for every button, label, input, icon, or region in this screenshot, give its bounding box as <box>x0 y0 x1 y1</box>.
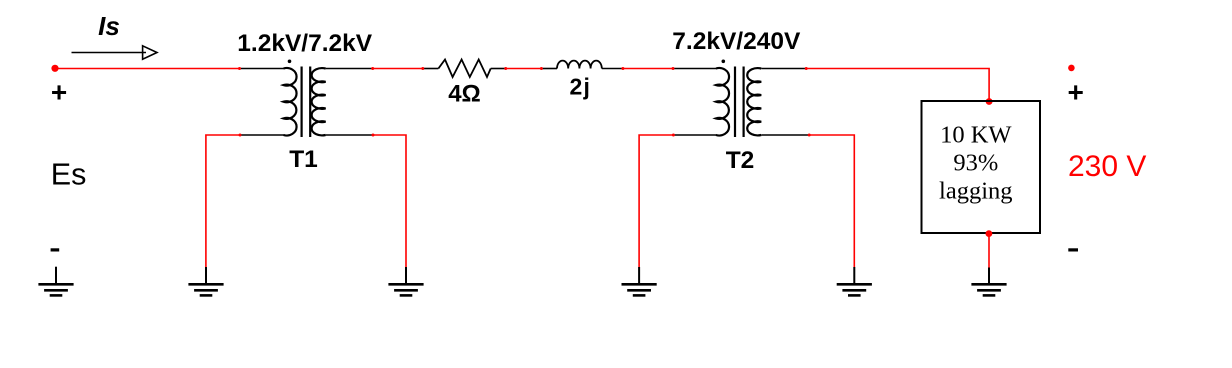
wire: red T1 primary bottom to ground corner <box>206 135 240 268</box>
ground G3 (T1 secondary) <box>388 267 423 295</box>
resistor R 4ohm zigzag <box>438 60 490 78</box>
transformer T1 polarity dot <box>288 60 292 64</box>
wire: black stub from T2 secondary top <box>761 68 806 70</box>
wire: black stub out of inductor <box>602 68 623 70</box>
wire: black stub into T2 primary top <box>673 68 717 70</box>
wire: black stub into inductor <box>541 68 557 70</box>
transformer T2 core <box>735 67 744 138</box>
transformer T2 polarity dot <box>722 60 726 64</box>
load box outline <box>922 101 1041 233</box>
wire: red inductor to T2 <box>623 68 673 70</box>
svg-text:7.2kV/240V: 7.2kV/240V <box>672 28 801 55</box>
transformer T2 secondary winding <box>747 68 761 135</box>
wire: source to T1 primary (red) <box>55 68 240 70</box>
wire: red load bottom to ground <box>988 234 990 268</box>
wire: red T1 secondary bottom to ground corner <box>373 135 406 268</box>
inductor L 2j <box>557 61 602 69</box>
svg-text:4Ω: 4Ω <box>448 80 481 107</box>
svg-text:T2: T2 <box>726 147 755 174</box>
ground G4 (T2 primary) <box>622 267 657 295</box>
svg-text:2j: 2j <box>570 73 592 99</box>
minus sign at source <box>51 248 60 251</box>
svg-text:lagging: lagging <box>939 178 1013 205</box>
transformer T1 primary winding <box>284 68 297 136</box>
svg-text:1.2kV/7.2kV: 1.2kV/7.2kV <box>237 30 373 57</box>
ground G2 (T1 primary) <box>188 267 223 295</box>
minus sign at output <box>1068 248 1078 251</box>
wire: red T2 secondary bottom to ground corner <box>809 135 854 268</box>
node: load top terminal dot <box>986 98 993 105</box>
ground G5 (T2 secondary) <box>837 267 872 295</box>
wire: black stub into T1 primary top <box>240 68 285 70</box>
node: output positive dot <box>1068 65 1075 72</box>
node: source positive terminal dot <box>51 65 58 72</box>
wire: black stub into resistor <box>423 68 439 70</box>
svg-text:+: + <box>51 76 67 107</box>
transformer T2 primary winding <box>716 68 729 135</box>
svg-text:Is: Is <box>98 11 120 41</box>
wire: red resistor to inductor <box>506 68 542 70</box>
transformer T1 core <box>302 67 311 138</box>
wire: red T1 to resistor <box>373 68 423 70</box>
wire: black stub from T2 primary bottom <box>673 134 717 136</box>
svg-text:10 KW: 10 KW <box>940 122 1012 149</box>
transformer T1 secondary winding <box>312 68 326 135</box>
svg-text:93%: 93% <box>953 150 998 177</box>
wire: black stub from T2 secondary bottom <box>761 134 809 136</box>
wire: black stub from T1 secondary bottom <box>326 134 373 136</box>
wire: red T2 secondary to load (with corner down) <box>806 69 989 102</box>
svg-text:T1: T1 <box>289 146 318 173</box>
svg-text:+: + <box>1068 76 1084 107</box>
red pin nubs at wire transitions <box>238 67 811 137</box>
svg-text:230 V: 230 V <box>1068 150 1146 183</box>
wire: black stub out of resistor <box>491 68 506 70</box>
wire: red T2 primary bottom to ground corner <box>639 135 673 268</box>
current direction arrow <box>72 46 158 59</box>
ground G6 (load) <box>971 268 1006 296</box>
wire: black stub from T1 secondary top <box>326 68 373 70</box>
wire: black stub from T1 primary bottom <box>240 134 285 136</box>
node: load bottom terminal dot <box>986 230 993 237</box>
svg-text:Es: Es <box>51 158 87 192</box>
ground G1 (source reference) <box>38 267 73 296</box>
